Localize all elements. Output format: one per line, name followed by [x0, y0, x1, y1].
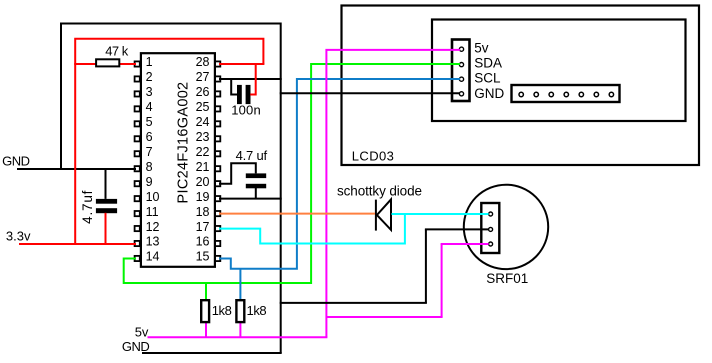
- svg-text:23: 23: [196, 130, 210, 144]
- svg-text:4.7 uf: 4.7 uf: [236, 148, 268, 163]
- svg-text:100n: 100n: [231, 103, 261, 118]
- expansion header hole 7: [609, 92, 613, 96]
- pin 13: [135, 235, 160, 249]
- expansion header hole 2: [534, 92, 538, 96]
- wire GND: to pin 8: [17, 168, 136, 170]
- wire 3.3v (red): branch to C1 right plate: [250, 64, 256, 95]
- pin 17: [196, 220, 221, 234]
- wire 5v (magenta): riser to LCD03 5v: [326, 50, 460, 337]
- pin 21: [196, 160, 221, 174]
- pin 15: [196, 250, 221, 264]
- resistor R3 1k8 body: [236, 300, 244, 322]
- wire (orange): pin 18 to D1 cathode: [219, 213, 375, 215]
- wire: C3 top plate to GND line: [105, 169, 107, 199]
- svg-text:SRF01: SRF01: [486, 271, 528, 286]
- pin 20: [196, 175, 221, 189]
- svg-text:13: 13: [146, 235, 160, 249]
- pin 10: [135, 190, 160, 204]
- wire 5v (magenta): branch to SRF01 (riser): [441, 244, 443, 317]
- wire (cyan): pin 17 jog down: [219, 214, 405, 244]
- J1 pin hole SDA: [459, 63, 463, 67]
- svg-text:3.3v: 3.3v: [6, 229, 31, 244]
- wire: C2 bottom plate to pin-19 GND line: [255, 188, 257, 199]
- svg-text:20: 20: [196, 175, 210, 189]
- svg-text:1k8: 1k8: [212, 303, 232, 318]
- capacitor C2 4.7uf (right) plates: [246, 173, 266, 188]
- svg-text:5v: 5v: [474, 40, 489, 55]
- wire GND: bus to LCD03 GND pin: [280, 92, 460, 94]
- wire 5v (magenta): R2 bottom to 5v rail: [205, 322, 207, 338]
- wire 5v (magenta): R3 bottom to 5v rail: [239, 322, 241, 338]
- svg-text:1: 1: [146, 55, 153, 69]
- wire 3.3v (red): C3 bottom plate to rail: [105, 213, 107, 244]
- pin 1: [135, 55, 153, 69]
- svg-text:11: 11: [146, 205, 159, 219]
- svg-text:4.7uf: 4.7uf: [80, 190, 95, 224]
- pin 27: [196, 70, 221, 84]
- wire GND: pin 19 to bus: [219, 198, 282, 200]
- svg-text:1k8: 1k8: [247, 303, 267, 318]
- svg-text:16: 16: [196, 235, 210, 249]
- svg-text:GND: GND: [2, 154, 30, 169]
- svg-text:SCL: SCL: [474, 71, 501, 86]
- wire GND: SRF01 riser (vertical): [425, 229, 427, 303]
- svg-text:6: 6: [146, 130, 153, 144]
- SRF01 connector J2: [481, 203, 499, 253]
- svg-text:24: 24: [196, 115, 210, 129]
- svg-text:18: 18: [196, 205, 210, 219]
- svg-text:12: 12: [146, 220, 160, 234]
- pin 24: [196, 115, 221, 129]
- svg-text:SDA: SDA: [474, 56, 502, 71]
- svg-text:25: 25: [196, 100, 210, 114]
- wire GND: pin 27 to bus: [219, 78, 282, 80]
- expansion header hole 6: [594, 92, 598, 96]
- J2 pin hole 3 (bottom): [489, 242, 493, 246]
- LCD03 expansion header: [512, 85, 620, 102]
- svg-text:14: 14: [146, 250, 160, 264]
- wire 3.3v (red): pin 28 feed: [219, 63, 264, 65]
- pin 5: [135, 115, 153, 129]
- expansion header hole 4: [564, 92, 568, 96]
- svg-text:3: 3: [146, 85, 153, 99]
- schottky diode D1 cathode bar: [375, 200, 377, 231]
- J1 pin hole GND: [459, 92, 463, 96]
- svg-text:LCD03: LCD03: [352, 149, 394, 164]
- PIC24FJ16GA002 microcontroller U1 body: [141, 53, 215, 267]
- schottky diode D1 triangle: [377, 199, 391, 230]
- wire 5v (magenta): to SRF01 bottom pin: [441, 243, 489, 245]
- wire SCL (blue): branch to pullup R3: [239, 269, 241, 301]
- wire 5v (magenta): bottom 5v rail: [148, 336, 328, 338]
- svg-text:2: 2: [146, 70, 153, 84]
- resistor R1 47k body: [96, 59, 119, 66]
- svg-text:15: 15: [196, 250, 210, 264]
- wire GND: bottom rail: [142, 352, 282, 354]
- pin 9: [135, 175, 153, 189]
- pin 8: [135, 160, 153, 174]
- pin 7: [135, 145, 153, 159]
- pin 23: [196, 130, 221, 144]
- resistor R2 1k8 body: [201, 300, 209, 322]
- pin 18: [196, 205, 221, 219]
- capacitor C3 4.7uf (left) plates: [96, 199, 117, 213]
- pin 2: [135, 70, 153, 84]
- svg-text:schottky diode: schottky diode: [337, 184, 422, 199]
- svg-text:26: 26: [196, 85, 210, 99]
- pin 12: [135, 220, 160, 234]
- wire 3.3v (red): R1 to pin 1: [120, 63, 137, 65]
- LCD03 board: [432, 20, 686, 122]
- wire (cyan): D1 anode to SRF01 top pin: [392, 213, 489, 215]
- wire SDA (green): branch to pullup R2: [205, 283, 207, 300]
- expansion header hole 3: [549, 92, 553, 96]
- svg-text:5: 5: [146, 115, 153, 129]
- LCD03 module outline: [342, 6, 700, 166]
- pin 6: [135, 130, 153, 144]
- svg-text:27: 27: [196, 70, 210, 84]
- pin 28: [196, 55, 221, 69]
- outer enclosure box (GND loop) left side: [61, 24, 281, 354]
- svg-text:PIC24FJ16GA002: PIC24FJ16GA002: [176, 82, 192, 204]
- pin 26: [196, 85, 221, 99]
- expansion header hole 1: [519, 92, 523, 96]
- J1 pin hole 5v: [459, 47, 463, 51]
- svg-text:9: 9: [146, 175, 153, 189]
- pin 4: [135, 100, 153, 114]
- svg-text:GND: GND: [122, 339, 149, 354]
- svg-text:22: 22: [196, 145, 210, 159]
- expansion header hole 5: [579, 92, 583, 96]
- svg-text:GND: GND: [474, 86, 504, 101]
- wire 3.3v (red): top loop: [75, 39, 263, 245]
- svg-text:47 k: 47 k: [105, 43, 129, 58]
- J1 pin hole SCL: [459, 77, 463, 81]
- SRF01 ultrasonic sensor outline: [464, 185, 548, 269]
- svg-text:8: 8: [146, 160, 153, 174]
- svg-text:5v: 5v: [135, 325, 149, 340]
- pin 11: [135, 205, 159, 219]
- J2 pin hole 2 (middle): [489, 227, 493, 231]
- pin 22: [196, 145, 221, 159]
- pin 19: [196, 190, 221, 204]
- svg-text:7: 7: [146, 145, 153, 159]
- wire SDA (green): pin 14 to LCD03 SDA, via loop under IC: [124, 64, 460, 283]
- pin 16: [196, 235, 221, 249]
- J2 pin hole 1 (top): [489, 212, 493, 216]
- wire: pin 20 to C2 top plate: [219, 163, 256, 184]
- svg-text:17: 17: [196, 220, 210, 234]
- pin 25: [196, 100, 221, 114]
- pin 14: [135, 250, 160, 264]
- wire GND: to SRF01 middle pin: [425, 228, 489, 230]
- svg-text:10: 10: [146, 190, 160, 204]
- wire 5v (magenta): branch to SRF01 (horizontal): [326, 316, 442, 318]
- wire 3.3v (red): to resistor R1: [74, 63, 95, 65]
- svg-text:21: 21: [196, 160, 210, 174]
- wire GND: bus to SRF01 riser (horizontal): [280, 302, 427, 304]
- wire: C1 left plate to GND (pin 27 line): [231, 79, 237, 95]
- capacitor C1 100n plates: [237, 85, 251, 104]
- svg-text:28: 28: [196, 55, 210, 69]
- LCD03 I2C connector J1: [452, 40, 470, 102]
- pin 3: [135, 85, 153, 99]
- svg-text:4: 4: [146, 100, 153, 114]
- wire 3.3v (red): bottom rail to pin 13: [19, 243, 136, 245]
- wire SCL (blue): pin 15 to LCD03 SCL: [219, 79, 460, 269]
- svg-text:19: 19: [196, 190, 210, 204]
